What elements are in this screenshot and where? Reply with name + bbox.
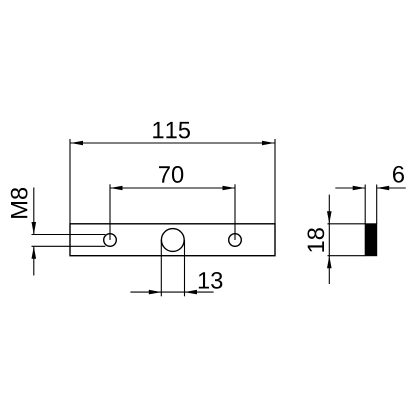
label 6 xyxy=(393,166,404,183)
dimension 13 line xyxy=(130,291,213,293)
dimension 70 right extension line xyxy=(234,184,236,240)
M8 upper arrowhead xyxy=(32,222,37,235)
label 13 xyxy=(199,272,223,289)
dimension 115 left arrowhead xyxy=(71,141,84,146)
M8 bottom leader line xyxy=(32,245,106,247)
plate outline front view xyxy=(70,224,275,256)
dimension 115 right arrowhead xyxy=(262,141,275,146)
dimension 13 right extension line xyxy=(184,240,186,296)
dimension 70 left arrowhead xyxy=(110,186,123,191)
label 115 xyxy=(153,122,190,139)
dimension 13 right arrowhead xyxy=(185,290,198,295)
label 70 xyxy=(159,166,183,183)
M8 lower arrow line xyxy=(33,246,35,275)
dimension 6 left leader xyxy=(335,187,365,189)
M8 lower arrowhead xyxy=(32,246,37,258)
dimension 13 left extension line xyxy=(160,240,162,296)
dimension 70 right arrowhead xyxy=(223,186,236,191)
M8 top leader line xyxy=(32,234,106,236)
dimension 18 top extension line xyxy=(328,223,366,225)
M8 upper arrow line xyxy=(33,188,35,235)
dimension 115 left extension line xyxy=(69,139,71,224)
dimension 13 left arrowhead xyxy=(149,290,162,295)
dimension 115 line xyxy=(71,142,275,144)
left M8 hole xyxy=(104,234,117,247)
side view plate (filled) xyxy=(365,224,377,256)
dimension 18 line xyxy=(328,195,330,284)
label M8 xyxy=(11,188,28,218)
dimension 115 right extension line xyxy=(274,139,276,224)
dimension 70 left extension line xyxy=(109,184,111,240)
dimension 6 left extension line xyxy=(364,185,366,224)
dimension 70 line xyxy=(110,187,235,189)
center hole Ø13 xyxy=(161,229,184,252)
label 18 xyxy=(307,228,324,252)
dimension 6 right leader xyxy=(377,187,406,189)
dimension 18 top arrowhead xyxy=(327,211,332,224)
right M8 hole xyxy=(229,234,242,247)
dimension 18 bottom arrowhead xyxy=(327,256,332,269)
dimension 18 bottom extension line xyxy=(328,255,366,257)
dimension 6 right arrowhead xyxy=(377,186,390,191)
dimension 6 left arrowhead xyxy=(353,186,366,191)
dimension 6 right extension line xyxy=(376,185,378,224)
